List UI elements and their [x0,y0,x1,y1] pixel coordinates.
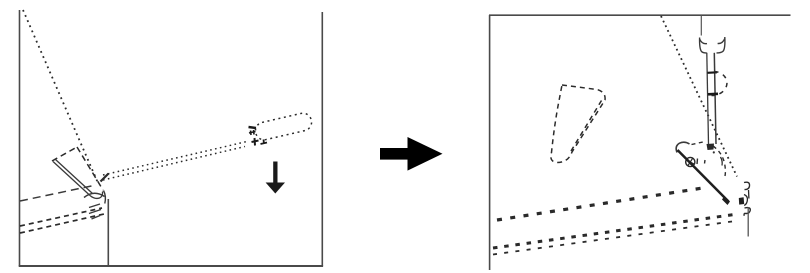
screwdriver handle right profile [717,37,725,53]
screwdriver handle rim right [718,39,725,44]
dotted door edge diagonal (right panel) [661,16,737,177]
small down arrow head (left panel) [266,183,285,194]
ferrule mark cross [252,138,259,146]
lower dashed band row 1 (right panel) [493,214,738,248]
rotation dashed arc [712,72,727,96]
upper thick dashed row (right panel) [497,188,706,221]
small down arrow stem (left panel) [273,162,277,184]
dashed wedge outline (hinge ghost) [551,85,605,163]
left panel bottom border [19,265,323,267]
left panel left border [19,10,21,266]
corner bracket bottom curl [744,208,750,216]
screwdriver dotted shaft lower line (left panel) [103,147,245,181]
corner cup inner stroke 2 [89,210,101,214]
corner cup inner stroke 1 [89,204,100,208]
hinge arm bold diagonal [678,150,729,202]
hinge plate dashed top edge [692,142,706,145]
right panel top border [489,14,791,16]
pried slab dashed right long edge [77,147,103,190]
plate small mark 2 [704,160,707,164]
right panel left border [489,15,491,270]
dashed bottom edge band line 1 (left panel) [20,208,102,226]
dotted door edge diagonal (left panel) [23,10,98,183]
hinge plate dashed right edge [713,146,725,176]
hinge plate screw circle [686,157,695,166]
dashed bottom edge band line 2 (left panel) [20,214,104,233]
plate small mark 1 [696,159,699,165]
corner bracket right curve [744,195,747,206]
ferrule mark tee [261,140,268,145]
screwdriver shaft left line [707,53,709,144]
screwdriver dotted handle outline (left panel) [254,112,313,142]
screwdriver hang line (right panel) [700,16,702,36]
corner cup right side [104,191,106,204]
blade tip tick [101,174,109,182]
plate right inner curve [721,157,723,166]
ferrule mark dash [249,127,257,128]
screw under blade [707,144,715,151]
left panel right border [321,12,323,266]
hinge arm tip blob [722,196,730,205]
corner vertical line (right panel) [747,207,749,237]
lower dashed band row 2 (right panel) [493,221,739,255]
screwdriver shaft right line [714,53,716,144]
corner bracket blob [739,197,744,204]
hinge plate solid cap [676,142,689,152]
hinge plate screw cross [687,159,695,166]
big transition arrow head [408,137,443,171]
corner cup inner stroke 3 [92,216,101,220]
ferrule mark blob [249,130,256,135]
shaft tick upper [708,71,718,74]
pried slab solid left edge inner [56,160,93,194]
corner bracket top curl [744,182,750,189]
long-dash shelf top edge line (left panel) [20,185,96,201]
plate small dot [713,151,715,153]
inner vertical corner line (left panel) [107,199,109,266]
pried slab solid tip [90,192,103,199]
screwdriver handle left profile [700,38,707,53]
screwdriver dotted shaft upper line (left panel) [103,142,247,176]
dashed wedge inner line [571,101,602,152]
pried slab solid left edge outer [53,162,90,196]
pried slab dashed top end edge [52,147,77,161]
shaft tick lower [708,93,718,96]
screwdriver handle rim left [700,39,707,44]
corner cup arc [84,193,105,197]
corner bracket side edge [748,190,750,199]
big transition arrow stem [380,148,408,160]
